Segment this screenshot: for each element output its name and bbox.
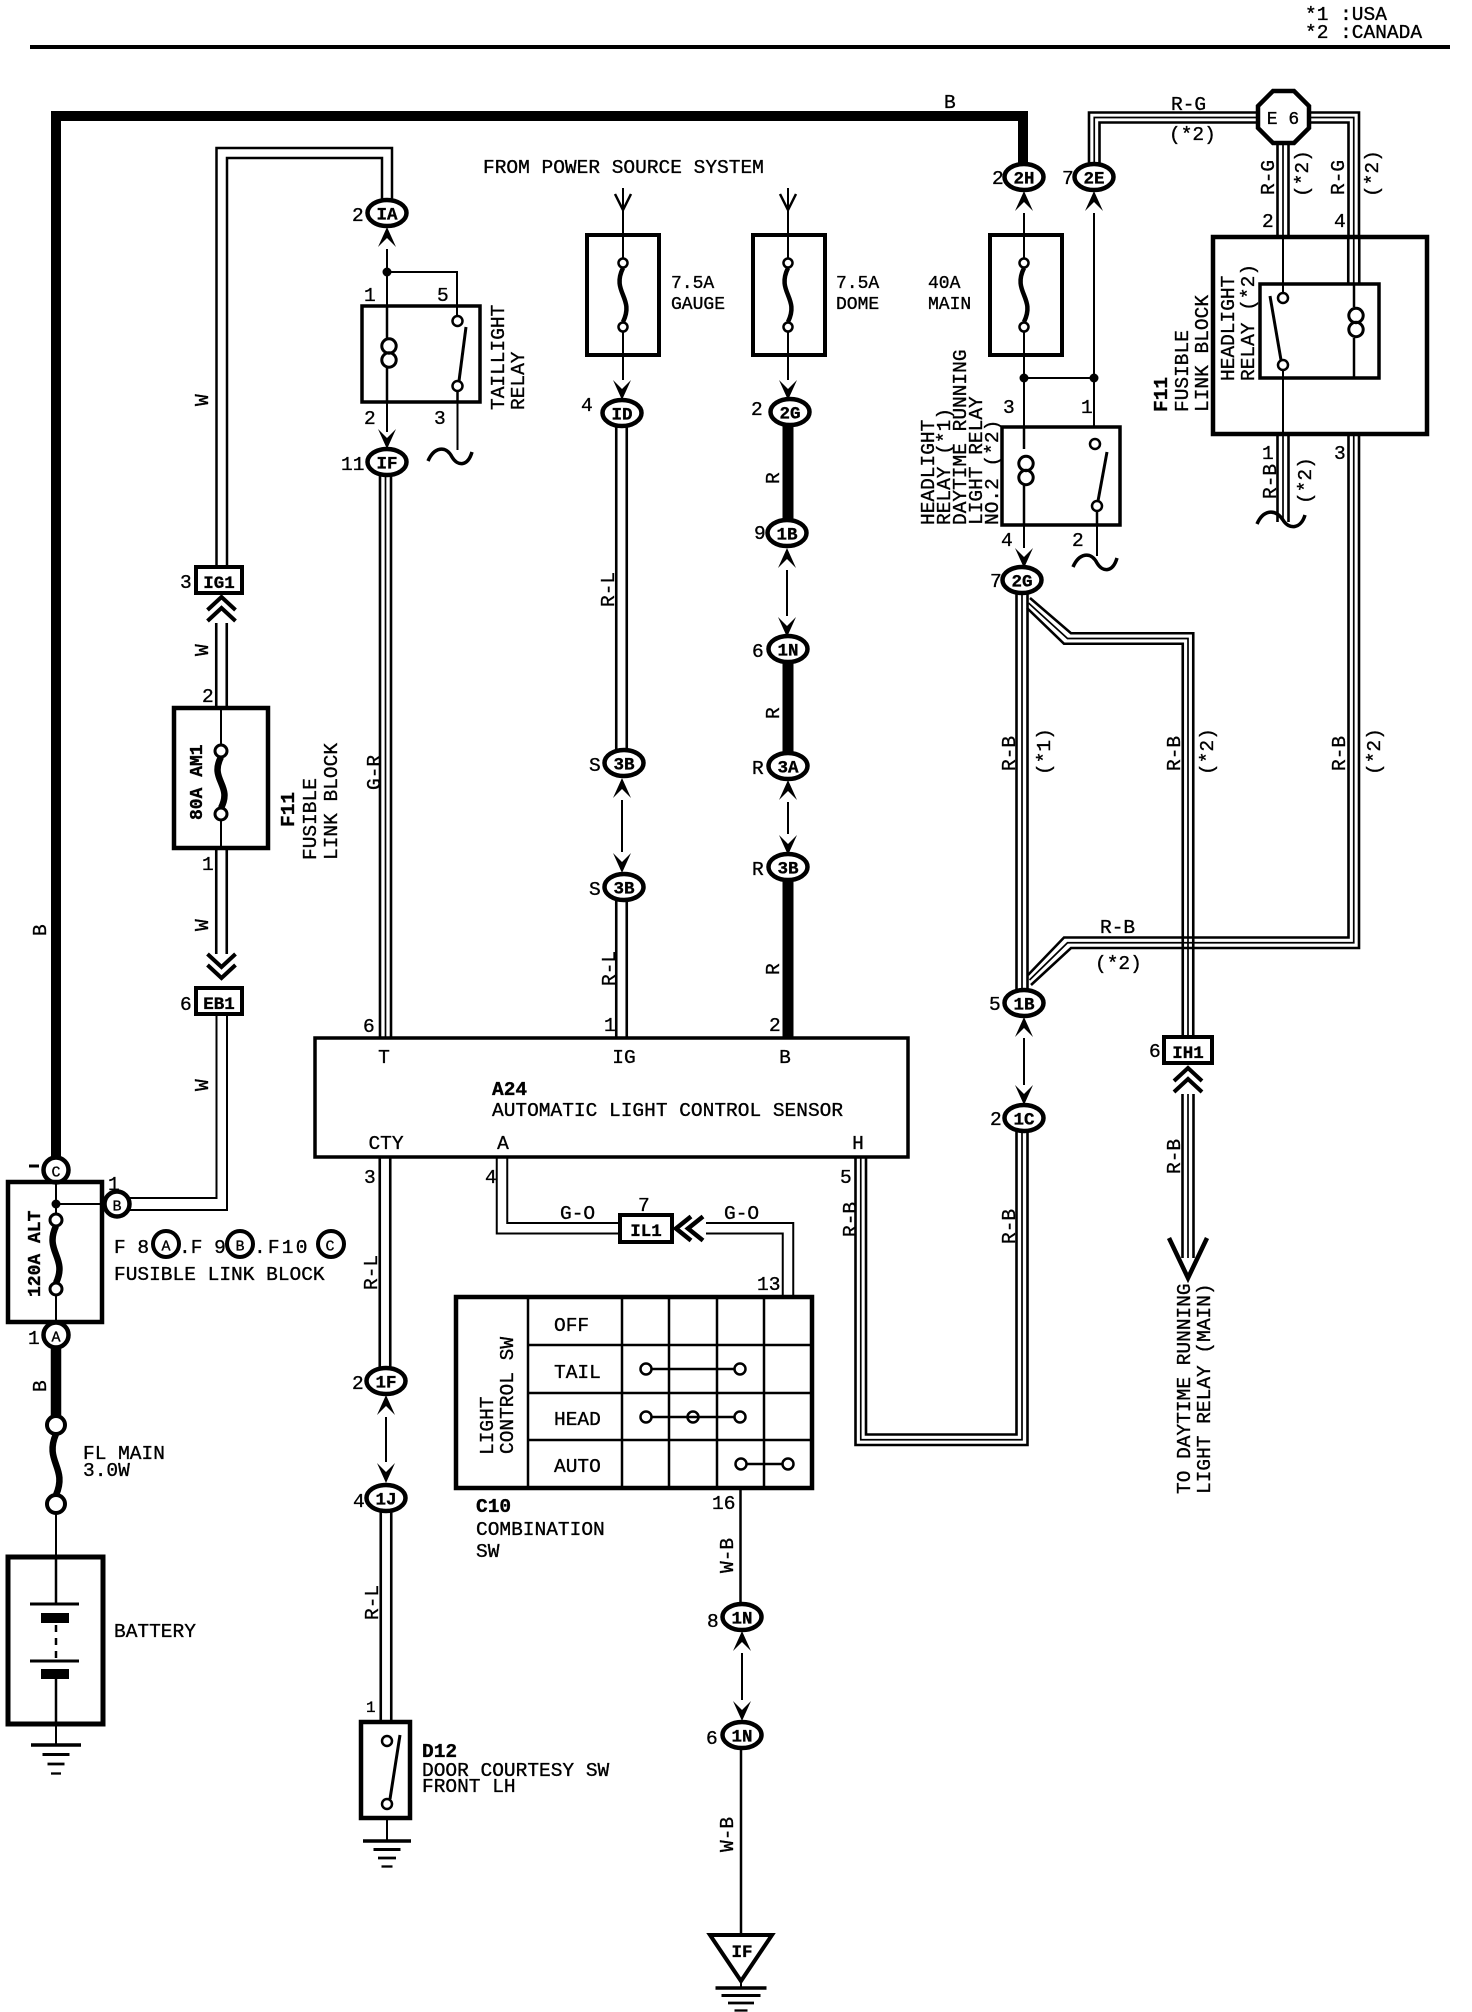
ECU A24 AUTOMATIC LIGHT CONTROL SENSOR box xyxy=(315,1038,908,1157)
svg-text:1B: 1B xyxy=(1013,996,1035,1016)
svg-text:TO DAYTIME RUNNING: TO DAYTIME RUNNING xyxy=(1174,1283,1196,1494)
wire R thick 1N to 3A xyxy=(783,662,794,753)
squiggle continuation at F11 pin 1 xyxy=(1257,512,1305,527)
svg-text:W: W xyxy=(192,644,214,656)
svg-text:R-L: R-L xyxy=(361,1255,383,1290)
svg-text:ID: ID xyxy=(611,406,632,426)
wire between 1B and 1C xyxy=(1023,1038,1025,1085)
arrow down into 3B xyxy=(779,835,797,855)
wire W - double line from connector IG1 up and over to connector IA xyxy=(217,148,393,567)
svg-text:F 8: F 8 xyxy=(114,1237,149,1259)
svg-text:F11: F11 xyxy=(1151,377,1173,412)
svg-text:(*2): (*2) xyxy=(1095,953,1142,975)
svg-text:R-L: R-L xyxy=(599,951,621,986)
ground below D12 xyxy=(363,1839,411,1843)
top horizontal rule xyxy=(30,45,1450,49)
fuse 7.5A GAUGE xyxy=(587,235,659,355)
svg-text:R: R xyxy=(763,963,785,975)
svg-text:4: 4 xyxy=(485,1167,497,1189)
svg-text:7.5A: 7.5A xyxy=(836,274,879,294)
wire between 1B and 1N xyxy=(786,570,788,616)
svg-text:R-B: R-B xyxy=(1164,1139,1186,1174)
wire 40A fuse down to relay pin 3 xyxy=(1023,355,1025,427)
svg-text:4: 4 xyxy=(1334,211,1346,233)
svg-text:3: 3 xyxy=(434,408,446,430)
wire R-B pair 1C down and left and up to A24 pin H xyxy=(856,1131,1028,1445)
chevron arrows up toward IG1 xyxy=(208,597,236,610)
svg-text:6: 6 xyxy=(752,641,764,663)
svg-text:OFF: OFF xyxy=(554,1315,589,1337)
svg-text:3B: 3B xyxy=(613,880,635,900)
svg-text:3: 3 xyxy=(1334,443,1346,465)
svg-text:DOME: DOME xyxy=(836,295,879,315)
svg-text:HEADLIGHT: HEADLIGHT xyxy=(1218,276,1240,381)
svg-text:W: W xyxy=(192,1079,214,1091)
switch D12 DOOR COURTESY SW box xyxy=(361,1722,410,1818)
wire W pair from EB1 down to alternator B terminal xyxy=(129,1014,217,1198)
node junction dot on pin1 wire xyxy=(383,268,392,277)
svg-text:R-B: R-B xyxy=(999,1209,1021,1244)
svg-text:IH1: IH1 xyxy=(1172,1044,1204,1064)
headlight relay no2 coil xyxy=(1023,427,1026,449)
svg-text:B: B xyxy=(944,92,956,114)
headlight relay *2 switch xyxy=(1278,293,1288,303)
switch C10 COMBINATION SW box xyxy=(456,1297,812,1488)
svg-text:1J: 1J xyxy=(375,1491,396,1511)
wire R-B(*2) branch diagonal from 2G to IH1 vertical xyxy=(1030,598,1193,1037)
svg-text:2H: 2H xyxy=(1013,170,1034,190)
taillight relay coil xyxy=(386,306,389,339)
wire W pair from chevron to 80A AM1 fusible link xyxy=(215,623,218,708)
wire pin2 to switch xyxy=(1282,237,1284,293)
svg-text:RELAY (*2): RELAY (*2) xyxy=(1238,264,1260,381)
svg-text:G-O: G-O xyxy=(560,1203,595,1225)
arrow up below 3A xyxy=(779,780,797,800)
wire between 3A and 3B xyxy=(787,802,789,834)
svg-text:1: 1 xyxy=(28,1328,40,1350)
svg-text:R: R xyxy=(763,472,785,484)
feed wire to dome fuse with arrow xyxy=(787,188,789,235)
svg-text:SW: SW xyxy=(476,1541,500,1563)
svg-text:A24: A24 xyxy=(492,1079,527,1101)
arrow up below 1F xyxy=(377,1395,395,1415)
svg-text:LINK BLOCK: LINK BLOCK xyxy=(1192,295,1214,412)
svg-text:IG1: IG1 xyxy=(203,574,235,594)
wire relay pin 2 to squiggle xyxy=(1096,525,1098,556)
wire taillight relay pin 3 to squiggle xyxy=(457,402,459,450)
svg-text:*2 :CANADA: *2 :CANADA xyxy=(1305,22,1422,44)
svg-text:40A: 40A xyxy=(928,274,961,294)
svg-text:COMBINATION: COMBINATION xyxy=(476,1519,605,1541)
wire B - thick battery positive feed from alternator C terminal to 2H xyxy=(56,116,1023,1158)
taillight relay switch xyxy=(453,316,463,326)
wire between 1F and 1J xyxy=(385,1417,387,1462)
svg-text:R-B: R-B xyxy=(840,1202,862,1237)
connector IL1 xyxy=(620,1215,672,1242)
svg-text:G-O: G-O xyxy=(724,1203,759,1225)
wire pin4 triple into relay coil xyxy=(1347,237,1350,284)
svg-text:4: 4 xyxy=(1001,530,1013,552)
svg-text:GAUGE: GAUGE xyxy=(671,295,725,315)
svg-text:120A ALT: 120A ALT xyxy=(26,1210,46,1297)
pin tick at C terminal xyxy=(29,1165,39,1168)
svg-text:CTY: CTY xyxy=(368,1133,403,1155)
wire R-L pair A24 pin CTY to 1F xyxy=(378,1157,381,1368)
svg-text:(*2): (*2) xyxy=(1364,728,1386,775)
alternator fuse symbol xyxy=(50,1214,62,1226)
wire R thick 2G to 1B xyxy=(783,425,794,521)
svg-text:1: 1 xyxy=(1081,397,1093,419)
wire dot to B terminal xyxy=(56,1203,105,1205)
wire gauge fuse to ID xyxy=(622,355,624,380)
svg-text:R: R xyxy=(752,859,764,881)
wire G-R triple line from IF down to A24 pin T xyxy=(379,475,382,1038)
svg-text:6: 6 xyxy=(1149,1041,1161,1063)
arrow down into 1C xyxy=(1015,1085,1033,1105)
svg-text:FUSIBLE LINK BLOCK: FUSIBLE LINK BLOCK xyxy=(114,1264,325,1286)
big arrow to daytime running light relay xyxy=(1169,1238,1207,1278)
svg-text:B: B xyxy=(779,1047,791,1069)
connector circle C xyxy=(44,1158,69,1183)
wire W pair from AM1 to EB1 xyxy=(215,848,218,954)
wire between 3B connectors xyxy=(621,800,623,852)
svg-text:C: C xyxy=(325,1239,334,1256)
svg-text:1F: 1F xyxy=(375,1374,396,1394)
junction connector E 6 octagon xyxy=(1258,91,1309,143)
ground triangle IF xyxy=(710,1935,772,1981)
svg-text:3B: 3B xyxy=(777,860,799,880)
svg-text:6: 6 xyxy=(706,1728,718,1750)
relay box inside F11 xyxy=(1260,284,1379,378)
svg-text:B: B xyxy=(112,1199,121,1216)
svg-text:16: 16 xyxy=(712,1493,735,1515)
wire between 1N connectors xyxy=(741,1653,743,1700)
D12 switch contacts xyxy=(382,1736,392,1746)
arrow down into 1J xyxy=(377,1463,395,1483)
svg-text:S: S xyxy=(589,755,601,777)
svg-text:B: B xyxy=(235,1239,244,1256)
connector circle B xyxy=(105,1192,130,1217)
svg-text:FROM POWER SOURCE SYSTEM: FROM POWER SOURCE SYSTEM xyxy=(483,157,764,179)
svg-text:R-G: R-G xyxy=(1258,160,1280,195)
svg-text:7.5A: 7.5A xyxy=(671,274,714,294)
arrow down into 1N xyxy=(778,617,796,637)
wire taillight relay pin 2 down to IF xyxy=(386,402,388,432)
svg-text:A: A xyxy=(161,1239,170,1256)
svg-text:S: S xyxy=(589,879,601,901)
wire R-B(*2) horizontal pair with diagonals to 1B xyxy=(1031,434,1359,985)
fuse 40A MAIN xyxy=(990,235,1062,355)
svg-text:1: 1 xyxy=(366,1699,376,1717)
svg-text:80A AM1: 80A AM1 xyxy=(188,744,208,820)
svg-text:IL1: IL1 xyxy=(630,1222,662,1242)
svg-text:F11: F11 xyxy=(278,792,300,827)
wire R-G pair E6 right to F11 pin 4 xyxy=(1309,113,1359,238)
svg-text:1N: 1N xyxy=(731,1610,752,1630)
svg-text:.F10: .F10 xyxy=(254,1237,310,1259)
svg-text:2: 2 xyxy=(990,1109,1002,1131)
svg-text:3: 3 xyxy=(180,572,192,594)
chevron arrows up toward IH1 xyxy=(1174,1068,1202,1081)
svg-text:5: 5 xyxy=(840,1167,852,1189)
svg-text:2: 2 xyxy=(1262,211,1274,233)
wire junction to 2E line xyxy=(1024,377,1094,379)
svg-text:1: 1 xyxy=(364,285,376,307)
battery box xyxy=(8,1557,103,1724)
arrow down into ID xyxy=(613,380,631,400)
svg-text:H: H xyxy=(852,1133,864,1155)
svg-text:6: 6 xyxy=(363,1016,375,1038)
svg-text:R-G: R-G xyxy=(1328,160,1350,195)
svg-text:W-B: W-B xyxy=(717,1817,739,1852)
svg-text:(*1): (*1) xyxy=(1034,728,1056,775)
svg-text:IF: IF xyxy=(731,1943,752,1963)
wire 2H to 40A MAIN fuse xyxy=(1023,213,1025,235)
svg-text:2: 2 xyxy=(202,686,214,708)
svg-text:A: A xyxy=(51,1330,60,1347)
junction dot on 2E line xyxy=(1090,374,1099,383)
svg-text:3.0W: 3.0W xyxy=(83,1460,130,1482)
arrow down into 2G right xyxy=(1023,525,1025,548)
svg-text:R-B: R-B xyxy=(1260,464,1282,499)
junction dot in ALT box xyxy=(52,1200,61,1209)
svg-text:11: 11 xyxy=(341,454,364,476)
svg-text:R-B: R-B xyxy=(1329,736,1351,771)
squiggle continuation at relay pin 2 xyxy=(1073,555,1117,570)
relay HEADLIGHT RELAY no2 box xyxy=(1002,427,1120,525)
svg-text:(*2): (*2) xyxy=(1197,728,1219,775)
svg-text:R-L: R-L xyxy=(362,1585,384,1620)
svg-text:IG: IG xyxy=(612,1047,635,1069)
svg-text:2: 2 xyxy=(352,205,364,227)
svg-text:5: 5 xyxy=(989,994,1001,1016)
svg-text:R-L: R-L xyxy=(598,572,620,607)
svg-text:CONTROL SW: CONTROL SW xyxy=(497,1337,519,1454)
svg-text:W: W xyxy=(192,919,214,931)
wire W-B 1N to IF ground triangle xyxy=(740,1748,743,1935)
connector circle A xyxy=(44,1323,69,1348)
arrow up into 2E xyxy=(1085,191,1103,211)
svg-text:R-G: R-G xyxy=(1171,94,1206,116)
arrow down into IF xyxy=(378,429,396,449)
svg-text:B: B xyxy=(30,1380,52,1392)
svg-text:TAIL: TAIL xyxy=(554,1362,601,1384)
svg-text:3B: 3B xyxy=(613,756,635,776)
svg-text:2: 2 xyxy=(769,1015,781,1037)
wire R-B triple below IH1 xyxy=(1181,1094,1184,1258)
svg-text:7: 7 xyxy=(990,571,1002,593)
battery cell plates xyxy=(55,1557,58,1604)
svg-text:AUTOMATIC LIGHT CONTROL SENSOR: AUTOMATIC LIGHT CONTROL SENSOR xyxy=(492,1100,843,1122)
svg-text:R: R xyxy=(763,707,785,719)
svg-text:1: 1 xyxy=(604,1015,616,1037)
svg-text:6: 6 xyxy=(180,994,192,1016)
wire D12 to ground xyxy=(386,1818,388,1841)
wire 2E down to relay pin 1 xyxy=(1093,213,1095,427)
wire battery to ground xyxy=(55,1724,57,1745)
svg-text:AUTO: AUTO xyxy=(554,1456,601,1478)
wire R-G triple E6 down to F11 pin 2 xyxy=(1276,143,1279,237)
HEAD contacts xyxy=(641,1412,652,1423)
svg-text:FUSIBLE: FUSIBLE xyxy=(1172,330,1194,412)
svg-text:1C: 1C xyxy=(1013,1111,1035,1131)
svg-text:E 6: E 6 xyxy=(1267,110,1299,130)
svg-text:FUSIBLE: FUSIBLE xyxy=(300,778,322,860)
AUTO contacts xyxy=(736,1459,747,1470)
svg-text:IF: IF xyxy=(376,455,397,475)
svg-text:TAILLIGHT: TAILLIGHT xyxy=(488,305,510,410)
wire from taillight relay pin 1 up to IA xyxy=(386,249,388,306)
svg-text:R-B: R-B xyxy=(1100,917,1135,939)
TAIL contacts xyxy=(641,1364,652,1375)
svg-text:LIGHT RELAY (MAIN): LIGHT RELAY (MAIN) xyxy=(1194,1283,1216,1494)
wire R-L pair ID to 3B xyxy=(615,427,618,750)
svg-text:.F 9: .F 9 xyxy=(179,1237,226,1259)
svg-text:R-B: R-B xyxy=(999,736,1021,771)
svg-text:(*2): (*2) xyxy=(1292,150,1314,197)
wire R thick 3B to A24 pin B xyxy=(783,880,794,1038)
ground symbol below IF triangle xyxy=(740,1981,742,1988)
svg-text:(*2): (*2) xyxy=(1169,124,1216,146)
svg-text:C10: C10 xyxy=(476,1496,511,1518)
svg-text:NO.2 (*2): NO.2 (*2) xyxy=(982,420,1004,525)
wire branch from junction to taillight relay pin 5 xyxy=(387,272,457,316)
junction dot below 40A fuse xyxy=(1020,374,1029,383)
wire R-L pair 1J to D12 xyxy=(379,1512,382,1722)
wire R-B(*1) triple 2G to 1B xyxy=(1015,593,1018,991)
svg-text:2: 2 xyxy=(751,399,763,421)
svg-text:R: R xyxy=(752,758,764,780)
svg-text:FRONT LH: FRONT LH xyxy=(422,1776,516,1798)
svg-text:2: 2 xyxy=(992,168,1004,190)
alternator 120A ALT box xyxy=(8,1182,102,1322)
svg-text:1B: 1B xyxy=(776,526,798,546)
svg-text:2: 2 xyxy=(364,408,376,430)
wire R-L pair 3B to A24 pin IG xyxy=(615,900,618,1038)
fusible link 80A AM1 box F11 xyxy=(174,708,268,848)
svg-text:2G: 2G xyxy=(1011,573,1032,593)
arrow down into 2G xyxy=(779,380,797,400)
squiggle continuation at taillight pin 3 xyxy=(428,449,472,464)
wire W-B combination switch pin 16 to 1N xyxy=(739,1488,742,1605)
svg-text:MAIN: MAIN xyxy=(928,295,971,315)
svg-text:2G: 2G xyxy=(779,405,800,425)
svg-text:(*2): (*2) xyxy=(1295,457,1317,504)
svg-text:A: A xyxy=(497,1133,509,1155)
arrow up into 2H xyxy=(1015,191,1033,211)
svg-text:3A: 3A xyxy=(777,759,799,779)
svg-text:2: 2 xyxy=(1072,530,1084,552)
svg-text:G-R: G-R xyxy=(364,755,386,790)
arrow down into 1N pin6 xyxy=(733,1701,751,1721)
arrow up below 1N pin8 xyxy=(733,1631,751,1651)
ground below battery xyxy=(31,1743,81,1747)
chevron arrows left toward IL1 xyxy=(676,1217,691,1241)
svg-text:LIGHT: LIGHT xyxy=(477,1396,499,1455)
fusible link block F11 box xyxy=(1213,237,1427,434)
svg-text:2: 2 xyxy=(352,1373,364,1395)
svg-text:B: B xyxy=(30,924,52,936)
svg-text:8: 8 xyxy=(707,1611,719,1633)
arrow up below 1B right xyxy=(1015,1017,1033,1037)
svg-text:1: 1 xyxy=(1262,443,1274,465)
svg-text:1: 1 xyxy=(202,854,214,876)
svg-text:7: 7 xyxy=(1062,168,1074,190)
fuse 7.5A DOME xyxy=(753,235,825,355)
svg-text:IA: IA xyxy=(376,206,398,226)
arrow up below 1B xyxy=(778,548,796,568)
svg-text:9: 9 xyxy=(754,523,766,545)
svg-text:3: 3 xyxy=(1003,397,1015,419)
svg-text:5: 5 xyxy=(437,285,449,307)
svg-text:T: T xyxy=(378,1047,390,1069)
svg-text:BATTERY: BATTERY xyxy=(114,1621,196,1643)
headlight relay *2 coil xyxy=(1349,308,1363,322)
svg-text:1N: 1N xyxy=(777,642,798,662)
svg-text:LINK BLOCK: LINK BLOCK xyxy=(321,743,343,860)
relay TAILLIGHT RELAY box xyxy=(362,306,480,402)
svg-text:4: 4 xyxy=(581,395,593,417)
chevron arrows down toward EB1 xyxy=(208,965,236,978)
combination switch grid xyxy=(527,1297,530,1488)
svg-text:(*2): (*2) xyxy=(1362,150,1384,197)
svg-text:4: 4 xyxy=(353,1491,365,1513)
wire R-G pair 2E up to E6 junction xyxy=(1089,113,1258,166)
svg-text:C: C xyxy=(51,1165,60,1182)
svg-text:3: 3 xyxy=(364,1167,376,1189)
svg-text:W: W xyxy=(192,394,214,406)
wire dome fuse to 2G xyxy=(787,355,789,380)
headlight relay no2 switch xyxy=(1090,439,1100,449)
svg-text:R-B: R-B xyxy=(1164,736,1186,771)
svg-text:RELAY: RELAY xyxy=(508,351,530,410)
wire R-B(*2) triple F11 pin1 to squiggle xyxy=(1276,434,1279,522)
svg-text:W-B: W-B xyxy=(717,1538,739,1573)
fusible link FL MAIN 3.0W xyxy=(47,1416,65,1434)
svg-text:13: 13 xyxy=(757,1274,780,1296)
wire G-O pair A24 pin A to IL1 xyxy=(497,1157,620,1234)
arrow down into lower 3B xyxy=(613,853,631,873)
feed wire to gauge fuse with arrow xyxy=(622,188,624,235)
wire B thick from A terminal to FL MAIN xyxy=(51,1347,62,1416)
svg-text:1N: 1N xyxy=(731,1728,752,1748)
svg-text:EB1: EB1 xyxy=(203,995,235,1015)
wire G-O pair IL1 to combination switch pin 13 xyxy=(706,1223,793,1297)
wire FL MAIN to battery xyxy=(55,1513,57,1557)
svg-text:2E: 2E xyxy=(1083,170,1104,190)
svg-text:HEAD: HEAD xyxy=(554,1409,601,1431)
arrow up below 3B xyxy=(613,778,631,798)
arrow up into IA xyxy=(378,227,396,247)
